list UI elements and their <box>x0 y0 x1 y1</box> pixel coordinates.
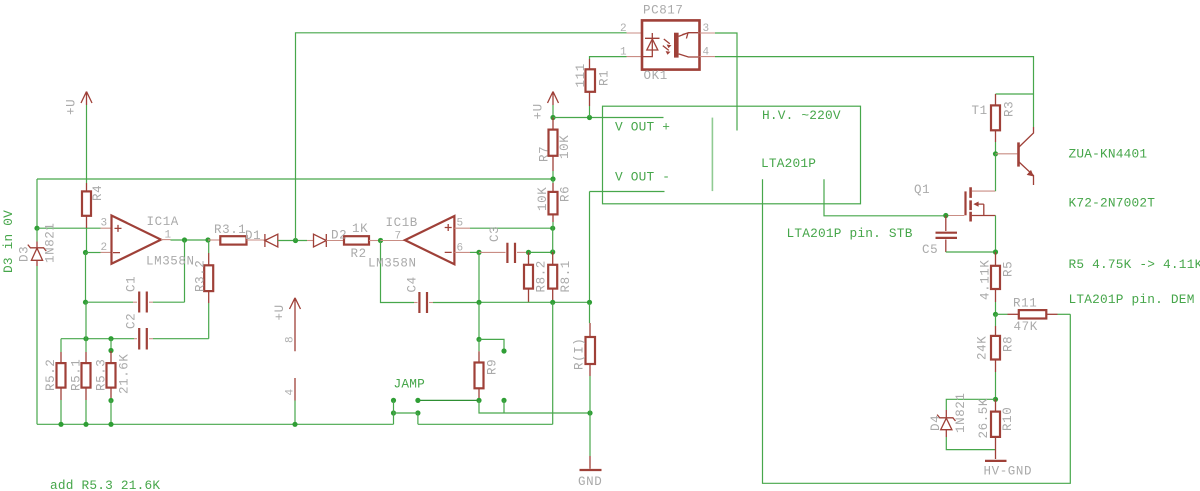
capacitor C4 <box>414 292 479 313</box>
junction R7/R6/reference line <box>550 176 555 181</box>
junction Q1 gate / C5 <box>943 213 948 218</box>
wire reference line y=179 from left rail to R7/R6 node <box>37 178 553 180</box>
svg-text:C1: C1 <box>125 276 139 292</box>
svg-text:IC1B: IC1B <box>386 216 418 230</box>
svg-text:R10: R10 <box>1001 407 1015 431</box>
label IC1B <box>386 216 418 230</box>
wire OK1 pin4 to T1 collector <box>715 57 1034 127</box>
svg-text:5: 5 <box>457 218 464 230</box>
svg-text:R3.2: R3.2 <box>194 260 208 292</box>
label R(I) <box>573 338 587 370</box>
resistor R9 <box>475 339 484 400</box>
value 1K of R2 <box>352 222 368 236</box>
label +U middle <box>273 304 287 320</box>
junction rail R5.2 <box>58 422 63 427</box>
svg-text:IC1A: IC1A <box>147 215 179 229</box>
junction C3 right / R8.2 top <box>526 250 531 255</box>
op-amp U1 IC1B (mirrored) <box>381 216 471 264</box>
wire V OUT - line <box>590 191 665 193</box>
label R10 <box>1001 407 1015 431</box>
svg-text:D2: D2 <box>331 229 347 243</box>
svg-text:+U: +U <box>532 103 546 119</box>
svg-text:C3: C3 <box>488 226 502 242</box>
ground GND symbol <box>580 413 602 470</box>
svg-text:10K: 10K <box>558 135 572 159</box>
wire R8 node down to right rail <box>552 302 554 424</box>
label D1 <box>245 229 261 243</box>
svg-text:V OUT +: V OUT + <box>615 120 670 135</box>
label R4 <box>91 185 105 201</box>
pin 1 OK1 <box>620 47 627 59</box>
wire D4 branch <box>946 399 995 410</box>
svg-text:R5: R5 <box>1002 261 1016 277</box>
junction +U / R1 / V OUT + <box>550 115 555 120</box>
svg-text:C4: C4 <box>406 276 420 292</box>
svg-text:JAMP: JAMP <box>394 377 426 392</box>
svg-text:1: 1 <box>620 47 627 59</box>
optocoupler OK1 PC817 <box>627 20 716 69</box>
junction R8.1 top <box>550 249 555 254</box>
node A junction D3 top / +input <box>34 226 39 231</box>
label R2 <box>351 247 367 261</box>
label R3.1 <box>214 223 246 237</box>
wire node down to C4 <box>381 241 415 303</box>
ground rail left segment <box>37 423 394 425</box>
wire R6 node down to R8.1 node <box>552 228 554 252</box>
pin 4 OK1 <box>703 47 710 59</box>
resistor R7 10K <box>549 118 558 180</box>
svg-text:D3 in 0V: D3 in 0V <box>1 210 16 273</box>
svg-text:111: 111 <box>574 63 588 87</box>
label +U at R7 <box>532 103 546 119</box>
junction R3/Q1 drain/T1 base <box>993 151 998 156</box>
ground rail right segment <box>418 423 553 425</box>
pin 6 IC1B <box>457 243 464 255</box>
svg-text:1N821: 1N821 <box>44 222 58 263</box>
capacitor C2 <box>61 328 209 350</box>
resistor R6 10K <box>549 179 558 228</box>
svg-text:LM358N: LM358N <box>368 257 417 271</box>
resistor R2 1K <box>326 236 380 244</box>
junction C2 line at R5.1 <box>83 336 88 341</box>
pin 4 op-amp supply <box>285 389 297 396</box>
svg-text:R9: R9 <box>486 359 500 375</box>
node stub pad <box>501 348 506 353</box>
svg-text:LTA201P pin. STB: LTA201P pin. STB <box>787 226 913 241</box>
label D4 <box>929 415 943 431</box>
value 26.5K of R10 <box>977 398 991 439</box>
resistor R3.1 <box>208 236 265 244</box>
label R11 <box>1013 297 1037 311</box>
resistor R8.2 <box>524 252 533 302</box>
label R8.2 <box>535 260 549 292</box>
label R9 <box>486 359 500 375</box>
svg-text:D1: D1 <box>245 229 261 243</box>
wire -input line <box>86 252 101 254</box>
label C3 <box>488 226 502 242</box>
resistor R8 24K <box>991 314 1000 399</box>
LTA201P block frame <box>603 106 861 204</box>
label R6 <box>559 186 573 202</box>
capacitor C3 <box>479 243 529 263</box>
resistor R5.2 <box>57 339 66 425</box>
junction C5/R5/source <box>993 249 998 254</box>
svg-text:LTA201P: LTA201P <box>761 156 816 171</box>
net label V OUT + <box>615 120 670 135</box>
label D3 <box>18 246 32 262</box>
pin 7 IC1B <box>395 231 402 243</box>
pin 3 IC1A <box>101 218 108 230</box>
junction GND line R(I) bottom <box>587 410 592 415</box>
svg-text:24K: 24K <box>976 336 990 360</box>
svg-text:R5 4.75K -> 4.11K: R5 4.75K -> 4.11K <box>1069 257 1200 272</box>
label Q1 <box>914 183 930 197</box>
svg-text:add R5.3 21.6K: add R5.3 21.6K <box>50 478 160 491</box>
resistor R5 4.11K <box>991 252 1000 314</box>
junction output/C1 feedback <box>182 237 187 242</box>
svg-text:R11: R11 <box>1013 297 1037 311</box>
svg-text:26.5K: 26.5K <box>977 398 991 439</box>
svg-text:8: 8 <box>285 336 297 343</box>
junction rail R5.1 <box>83 422 88 427</box>
pin 5 IC1B <box>457 218 464 230</box>
svg-text:LM358N: LM358N <box>146 255 195 269</box>
label R5.2 <box>44 359 58 391</box>
svg-text:1: 1 <box>165 230 172 242</box>
wire OK1 pin3 into HV box <box>715 33 737 131</box>
svg-text:R3: R3 <box>1003 101 1017 117</box>
net label JAMP <box>394 377 426 392</box>
junction pin6 node <box>476 250 481 255</box>
svg-text:R2: R2 <box>351 247 367 261</box>
label +U left <box>65 99 79 115</box>
svg-text:6: 6 <box>457 243 464 255</box>
value 47K of R11 <box>1014 320 1038 334</box>
wire IC1A output <box>171 239 209 241</box>
power +U symbol op-amp supply pin8/pin4 <box>290 298 301 425</box>
value LM358N of IC1B <box>368 257 417 271</box>
pin 3 OK1 <box>703 23 710 35</box>
svg-text:R(I): R(I) <box>573 338 587 370</box>
resistor R5.1 <box>82 339 91 425</box>
capacitor C1 <box>86 292 185 313</box>
svg-text:K72-2N7002T: K72-2N7002T <box>1069 196 1156 211</box>
svg-text:4: 4 <box>703 47 710 59</box>
resistor R4 <box>82 183 91 253</box>
wire left rail top segment x=37 <box>36 179 38 228</box>
transistor T1 (NPN) <box>996 127 1034 185</box>
svg-text:3: 3 <box>101 218 108 230</box>
junction R1 bottom <box>587 115 592 120</box>
capacitor C5 <box>936 216 996 253</box>
note R5 4.75K -> 4.11K <box>1069 257 1200 272</box>
label R3 <box>1003 101 1017 117</box>
svg-text:3: 3 <box>703 23 710 35</box>
junction R9 top <box>476 337 481 342</box>
wire Q1 source down <box>995 216 997 253</box>
diode D1 <box>265 234 278 247</box>
junction R3.2 top on output chain <box>205 237 210 242</box>
label T1 <box>972 104 988 118</box>
label PC817 <box>643 4 684 18</box>
svg-text:+U: +U <box>273 304 287 320</box>
svg-text:PC817: PC817 <box>643 4 684 18</box>
wire pale divider inside LTA201P box <box>711 118 713 192</box>
svg-text:R8: R8 <box>1002 336 1016 352</box>
wire feedback down to C1 right <box>184 240 186 302</box>
label C5 <box>922 243 938 257</box>
svg-text:4.11K: 4.11K <box>979 259 993 300</box>
svg-text:V OUT -: V OUT - <box>615 170 670 185</box>
svg-text:+U: +U <box>65 99 79 115</box>
diode D3 1N821 zener <box>28 228 46 424</box>
label HV-GND <box>984 465 1033 479</box>
pin 2 IC1A <box>101 242 108 254</box>
ground HV-GND symbol <box>985 460 1007 462</box>
junction summing/R8 bottom/rail <box>550 300 555 305</box>
wire IC1B pin5 line to R6 <box>470 227 553 229</box>
value 1N821 of D3 <box>44 222 58 263</box>
junction R5.3 top wire <box>108 336 113 341</box>
junction R2/IC1B input node <box>378 238 383 243</box>
svg-text:R5.3: R5.3 <box>95 359 109 391</box>
value 4.11K of R5 <box>979 259 993 300</box>
wire -input node to C2 line <box>85 302 87 339</box>
junction R9 bottom <box>476 398 481 403</box>
svg-text:GND: GND <box>578 475 602 489</box>
label D2 <box>331 229 347 243</box>
wire pad right down <box>503 400 505 413</box>
value 1N821 of D4 <box>954 392 968 433</box>
label R8.1 <box>559 260 573 292</box>
value LM358N of IC1A <box>146 255 195 269</box>
junction rail R5.3 <box>108 422 113 427</box>
wire LTA201P pin STB to Q1 gate <box>824 179 946 216</box>
svg-text:R4: R4 <box>91 185 105 201</box>
wire R9 stub pad branch <box>479 339 504 351</box>
value 10K of R6 <box>536 187 550 211</box>
resistor R(I) <box>586 302 596 413</box>
resistor R1 111 <box>586 57 627 118</box>
transistor Q1 (N-MOSFET 2N7002) <box>946 187 996 221</box>
junction rail op-amp pin4 <box>292 422 297 427</box>
svg-text:7: 7 <box>395 231 402 243</box>
svg-text:R6: R6 <box>559 186 573 202</box>
wire T1 collector top link <box>996 93 1034 95</box>
note K72-2N7002T <box>1069 196 1156 211</box>
wire summing line (C4 row right part) <box>479 301 590 303</box>
label R5.3 <box>95 359 109 391</box>
svg-text:2: 2 <box>101 242 108 254</box>
wire LTA201P pin DEM down <box>763 179 1071 483</box>
wire jumper bridge <box>394 400 418 424</box>
svg-text:R3.1: R3.1 <box>214 223 246 237</box>
svg-text:HV-GND: HV-GND <box>984 465 1033 479</box>
junction op-amp -input node <box>83 250 88 255</box>
svg-text:21.6K: 21.6K <box>118 353 132 394</box>
value 24K of R8 <box>976 336 990 360</box>
pin 1 IC1A <box>165 230 172 242</box>
svg-text:Q1: Q1 <box>914 183 930 197</box>
resistor R8.1 <box>548 252 557 302</box>
label OK1 <box>644 69 668 83</box>
svg-text:ZUA-KN4401: ZUA-KN4401 <box>1069 147 1148 162</box>
label R5.1 <box>70 359 84 391</box>
value 111 of R1 <box>574 63 588 87</box>
svg-text:10K: 10K <box>536 187 550 211</box>
wire -input node down to C1 <box>85 253 87 303</box>
junction diode midpoint to opto <box>293 238 298 243</box>
wire R9 top branch <box>478 302 480 339</box>
note LTA201P pin. DEM <box>1069 292 1195 307</box>
resistor R11 47K <box>996 310 1071 318</box>
wire C3 node to R8.1 node <box>529 251 553 253</box>
resistor R5.3 (added) <box>107 339 116 425</box>
net label LTA201P <box>761 156 816 171</box>
wire Q1 drain up <box>995 154 997 191</box>
wire R9 bottom line to jumper pad <box>418 399 479 401</box>
value 10K of R7 <box>558 135 572 159</box>
junction summing/V OUT-/R(I) <box>587 300 592 305</box>
note add R5.3 21.6K <box>50 478 160 491</box>
label C1 <box>125 276 139 292</box>
svg-text:4: 4 <box>285 389 297 396</box>
svg-text:C5: C5 <box>922 243 938 257</box>
resistor R3.2 <box>204 240 213 339</box>
resistor R10 26.5K <box>991 399 1000 459</box>
label GND <box>578 475 602 489</box>
label C2 <box>125 313 139 329</box>
note ZUA-KN4401 <box>1069 147 1148 162</box>
net label H.V. ~220V <box>762 108 841 123</box>
svg-text:H.V. ~220V: H.V. ~220V <box>762 108 841 123</box>
junction R6 bottom / pin5 <box>550 226 555 231</box>
svg-text:2: 2 <box>620 23 627 35</box>
junction R8/R10/D4 <box>993 397 998 402</box>
svg-text:C2: C2 <box>125 313 139 329</box>
wire V OUT + line <box>553 117 664 119</box>
svg-text:R8.2: R8.2 <box>535 260 549 292</box>
pin 2 OK1 <box>620 23 627 35</box>
value 21.6K of R5.3 <box>118 353 132 394</box>
wire R9 bottom down to GND line <box>479 400 590 413</box>
label R5 <box>1002 261 1016 277</box>
note LTA201P pin. STB <box>787 226 913 241</box>
diode D4 1N821 zener <box>937 410 995 450</box>
svg-text:T1: T1 <box>972 104 988 118</box>
label IC1A <box>147 215 179 229</box>
svg-text:R5.2: R5.2 <box>44 359 58 391</box>
wire V OUT - down to summing line <box>589 192 591 303</box>
svg-text:1N821: 1N821 <box>954 392 968 433</box>
note D3 in 0V <box>1 210 16 273</box>
label R1 <box>598 70 612 86</box>
label C4 <box>406 276 420 292</box>
wire midpoint up and across to OK1 pin2 <box>296 33 627 241</box>
label R3.2 <box>194 260 208 292</box>
svg-text:OK1: OK1 <box>644 69 668 83</box>
wire pin6 node down to summing line <box>478 252 480 302</box>
svg-text:1K: 1K <box>352 222 368 236</box>
diode D2 <box>307 234 326 247</box>
wire op-amp +input line <box>37 227 101 229</box>
svg-text:R7: R7 <box>538 146 552 162</box>
svg-text:LTA201P pin. DEM: LTA201P pin. DEM <box>1069 292 1195 307</box>
power +U symbol (left) <box>81 92 92 184</box>
svg-text:R5.1: R5.1 <box>70 359 84 391</box>
op-amp U1 IC1A <box>101 216 171 264</box>
resistor R3 <box>991 94 1000 154</box>
jumper JAMP pads <box>391 398 421 416</box>
junction R5/R11/R8 <box>993 312 998 317</box>
label R7 <box>538 146 552 162</box>
junction C1 left <box>83 300 88 305</box>
node pad right <box>501 398 506 403</box>
svg-text:D3: D3 <box>18 246 32 262</box>
pin 8 op-amp supply <box>285 336 297 343</box>
svg-text:R8.1: R8.1 <box>559 260 573 292</box>
wire D1 to D2 <box>278 240 307 242</box>
label R8 <box>1002 336 1016 352</box>
net label V OUT - <box>615 170 670 185</box>
wire IC1B pin6 line <box>470 251 479 253</box>
junction summing/R9 <box>476 300 481 305</box>
power +U symbol (R7 top) <box>548 92 559 118</box>
svg-text:47K: 47K <box>1014 320 1038 334</box>
svg-text:D4: D4 <box>929 415 943 431</box>
svg-text:R1: R1 <box>598 70 612 86</box>
